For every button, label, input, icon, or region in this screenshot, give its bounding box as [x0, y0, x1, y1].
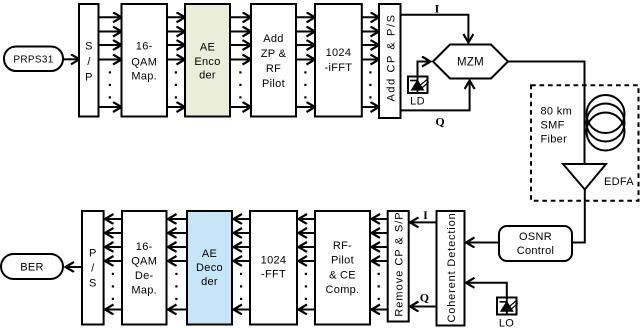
wire LD to MZM [418, 62, 431, 77]
block 1024-FFT [250, 211, 297, 325]
svg-text:-iFFT: -iFFT [325, 62, 353, 74]
svg-text:& CE: & CE [329, 269, 356, 281]
fiber span dashed enclosure [531, 85, 639, 201]
svg-text:-FFT: -FFT [261, 269, 286, 281]
svg-text:EDFA: EDFA [604, 176, 634, 188]
svg-text:QAM: QAM [131, 56, 157, 68]
wire bus 16-QAM De-Map to P/S [105, 219, 122, 310]
block Remove CP and S/P [388, 211, 409, 322]
block AE Encoder [185, 4, 230, 117]
svg-text:OSNR: OSNR [519, 231, 552, 243]
svg-text:ZP &: ZP & [261, 48, 287, 60]
svg-text:1024: 1024 [261, 255, 287, 267]
wire bus 16-QAM Map to AE Encoder [168, 17, 186, 107]
block OSNR Control [499, 226, 572, 261]
svg-text:BER: BER [20, 262, 44, 274]
svg-text:SMF: SMF [541, 120, 565, 132]
wire bus Add ZP to 1024-iFFT [297, 17, 316, 107]
wire MZM output to fiber [508, 62, 585, 164]
block S/P serial-to-parallel [79, 4, 99, 117]
svg-text:LD: LD [410, 96, 425, 108]
wire bus AE Encoder to Add ZP [231, 17, 252, 107]
wire LO to Coherent Detection [466, 283, 507, 297]
svg-text:der: der [199, 70, 216, 82]
amplifier EDFA [563, 164, 634, 190]
wire Q Coherent Detection to Remove CP [410, 306, 436, 308]
svg-text:AE: AE [202, 248, 217, 260]
svg-text:Enco: Enco [194, 56, 220, 68]
block RF-Pilot and CE Compensation [315, 211, 370, 325]
svg-text:S: S [89, 278, 97, 290]
svg-text:De-: De- [135, 270, 154, 282]
modulator MZM [433, 45, 508, 79]
laser diode LO local oscillator [497, 298, 518, 328]
fiber coil [587, 95, 625, 151]
svg-text:16-: 16- [136, 41, 153, 53]
svg-text:Add: Add [263, 33, 283, 45]
block P/S parallel-to-serial [82, 211, 104, 325]
wire bus Remove CP to RF-Pilot [372, 219, 388, 310]
wire EDFA to OSNR Control [573, 190, 585, 243]
svg-text:Pilot: Pilot [262, 78, 285, 90]
svg-text:der: der [201, 276, 218, 288]
block Add CP and P/S [379, 4, 401, 118]
svg-text:Add CP & P/S: Add CP & P/S [386, 13, 398, 101]
svg-text:PRPS31: PRPS31 [13, 55, 53, 66]
svg-text:LO: LO [499, 318, 514, 328]
laser diode LD [408, 77, 429, 108]
wire bus S/P to 16-QAM Map [99, 17, 122, 107]
svg-text:Comp.: Comp. [326, 284, 360, 296]
svg-text:P: P [85, 71, 93, 83]
wire bus 1024-FFT to AE Decoder [234, 219, 250, 310]
block 1024-iFFT [315, 4, 362, 117]
svg-text:MZM: MZM [457, 57, 484, 69]
svg-text:Deco: Deco [196, 262, 223, 274]
svg-text:Q: Q [420, 291, 429, 305]
wire bus 1024-iFFT to Add CP [362, 17, 379, 107]
svg-text:QAM: QAM [131, 255, 157, 267]
svg-text:RF: RF [266, 63, 281, 75]
wire bus AE Decoder to 16-QAM De-Map [168, 219, 187, 310]
node PRPS31 source [4, 47, 63, 72]
svg-text:1024: 1024 [326, 47, 352, 59]
block 16-QAM Mapper [122, 4, 168, 117]
wire PRPS31 to S/P [64, 58, 80, 60]
block Add ZP and RF Pilot [251, 4, 296, 117]
svg-text:16-: 16- [136, 241, 153, 253]
wire Q branch to MZM [401, 81, 470, 111]
svg-text:S: S [85, 41, 93, 53]
wire P/S to BER [66, 266, 82, 268]
svg-text:Coherent Detection: Coherent Detection [446, 212, 458, 322]
svg-text:Control: Control [517, 245, 555, 257]
svg-text:Map.: Map. [131, 284, 157, 296]
svg-text:80 km: 80 km [541, 106, 572, 118]
block 16-QAM De-Mapper [122, 211, 167, 325]
svg-text:I: I [423, 208, 428, 222]
svg-text:Map.: Map. [131, 71, 157, 83]
wire OSNR Control to Coherent Detection [466, 242, 499, 244]
block Coherent Detection [437, 211, 465, 326]
svg-text:Q: Q [435, 115, 444, 129]
svg-text:I: I [435, 2, 440, 16]
svg-text:Pilot: Pilot [331, 255, 354, 267]
wire bus RF-Pilot to 1024-FFT [299, 219, 315, 310]
node 80 km SMF Fiber label [541, 106, 572, 146]
svg-text:RF-: RF- [333, 240, 352, 252]
svg-text:P: P [89, 248, 97, 260]
svg-text:AE: AE [200, 42, 215, 54]
wire I Coherent Detection to Remove CP [410, 221, 436, 223]
wire I branch to MZM [401, 15, 469, 43]
node BER sink [1, 254, 63, 279]
svg-text:Fiber: Fiber [541, 134, 568, 146]
block AE Decoder [187, 211, 232, 325]
svg-text:Remove CP & S/P: Remove CP & S/P [394, 211, 406, 316]
